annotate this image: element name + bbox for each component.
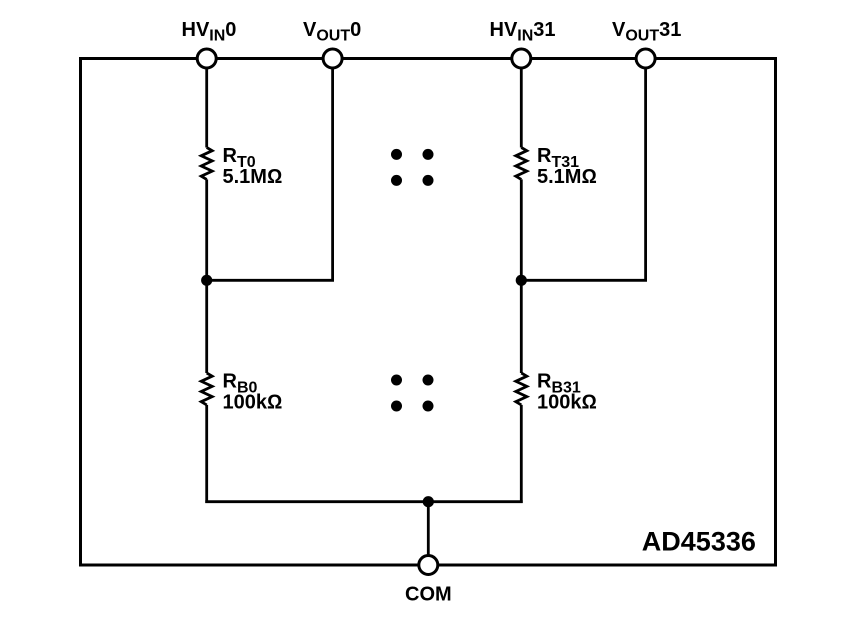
pin COM bbox=[419, 556, 438, 575]
ellipsis dots top group (repeated channels) bbox=[391, 149, 402, 160]
pin VOUT31 bbox=[636, 49, 655, 68]
pin HVIN31 bbox=[512, 49, 531, 68]
svg-text:100kΩ: 100kΩ bbox=[223, 392, 283, 414]
wire RT0 bottom to RB0 top bbox=[205, 179, 208, 373]
resistor RB0 bbox=[201, 373, 212, 405]
pin HVIN0 bbox=[197, 49, 216, 68]
svg-text:VOUT0: VOUT0 bbox=[303, 19, 361, 45]
svg-text:5.1MΩ: 5.1MΩ bbox=[537, 166, 597, 188]
svg-text:100kΩ: 100kΩ bbox=[537, 392, 597, 414]
wire VOUT0 vertical bbox=[331, 59, 334, 281]
wire VOUT31 tap horizontal to node B bbox=[520, 279, 647, 282]
svg-text:COM: COM bbox=[405, 584, 452, 606]
ellipsis dots bottom group (repeated channels) bbox=[391, 375, 402, 386]
wire HVIN0 vertical (pin to top of RT0) bbox=[205, 59, 208, 148]
wire VOUT0 tap horizontal to node A bbox=[205, 279, 334, 282]
svg-text:VOUT31: VOUT31 bbox=[612, 19, 681, 45]
wire COM rail horizontal bbox=[205, 500, 522, 503]
resistor RT31 bbox=[516, 148, 527, 180]
resistor RT0 bbox=[201, 148, 212, 180]
svg-text:HVIN0: HVIN0 bbox=[182, 19, 237, 45]
pin VOUT0 bbox=[323, 49, 342, 68]
svg-text:HVIN31: HVIN31 bbox=[490, 19, 556, 45]
node B junction dot bbox=[516, 275, 527, 286]
svg-text:AD45336: AD45336 bbox=[642, 527, 756, 557]
wire HVIN31 vertical (pin to top of RT31) bbox=[520, 59, 523, 148]
svg-text:5.1MΩ: 5.1MΩ bbox=[223, 166, 283, 188]
wire RB31 bottom to COM rail bbox=[520, 405, 523, 503]
wire RB0 bottom to COM rail bbox=[205, 405, 208, 503]
node C junction dot bbox=[423, 496, 434, 507]
wire VOUT31 vertical bbox=[644, 59, 647, 281]
wire RT31 bottom to RB31 top bbox=[520, 179, 523, 373]
resistor RB31 bbox=[516, 373, 527, 405]
node A junction dot bbox=[201, 275, 212, 286]
chip boundary AD45336 bbox=[81, 59, 776, 566]
wire node C to COM pin bbox=[427, 502, 430, 565]
